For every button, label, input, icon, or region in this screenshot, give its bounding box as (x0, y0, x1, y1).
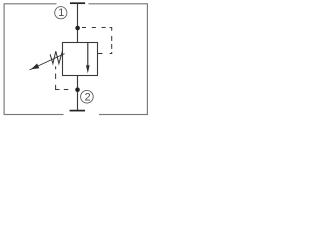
valve body V1 (63, 43, 98, 76)
adjustment arrow (30, 54, 65, 70)
port 1 stub bar (70, 2, 85, 4)
svg-text:2: 2 (85, 92, 91, 104)
drain line dashed left (56, 66, 69, 89)
frame gap top (57, 2, 89, 8)
flow arrow inside valve (86, 43, 90, 74)
port label 1 (55, 7, 67, 20)
frame gap bottom (64, 112, 100, 118)
svg-text:1: 1 (58, 7, 64, 19)
pilot line dashed right (82, 28, 112, 54)
node junction dot bottom (75, 87, 80, 92)
wire valve to port 2 (77, 76, 79, 111)
cavity outline frame (4, 4, 147, 115)
port label 2 (81, 90, 94, 103)
node junction dot top (75, 26, 80, 31)
wire port 1 to valve (77, 3, 79, 42)
spring (50, 51, 62, 63)
port 2 stub bar (70, 110, 85, 112)
